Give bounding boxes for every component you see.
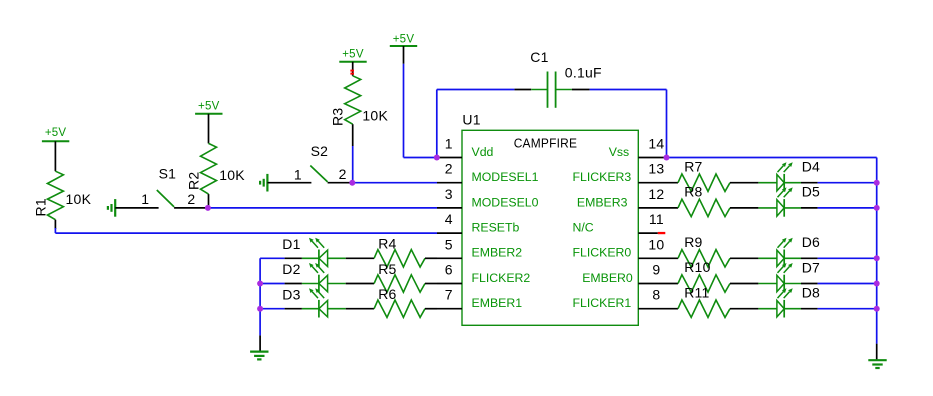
- svg-text:R5: R5: [378, 261, 396, 277]
- svg-text:13: 13: [648, 161, 664, 177]
- svg-text:+5V: +5V: [393, 33, 415, 45]
- wire R3 bottom to node: [352, 146, 354, 183]
- resistor R1 10K: [33, 171, 92, 229]
- svg-text:EMBER1: EMBER1: [472, 296, 523, 310]
- junction left rail D3: [257, 306, 263, 312]
- wire R1 to RESETb: [55, 232, 437, 234]
- svg-text:MODESEL1: MODESEL1: [472, 170, 539, 184]
- svg-text:S1: S1: [159, 165, 177, 181]
- svg-text:R1: R1: [33, 198, 49, 216]
- svg-text:2: 2: [339, 166, 347, 182]
- svg-text:EMBER2: EMBER2: [472, 246, 523, 260]
- +5V supply above R3: [339, 49, 366, 76]
- svg-text:+5V: +5V: [342, 49, 364, 61]
- svg-text:FLICKER2: FLICKER2: [472, 271, 531, 285]
- svg-text:2: 2: [187, 191, 195, 207]
- svg-text:10K: 10K: [66, 191, 92, 207]
- junction node R2/S1: [205, 205, 211, 211]
- svg-text:0.1uF: 0.1uF: [565, 65, 602, 81]
- switch S2: [260, 143, 352, 192]
- U1 pin 10 (FLICKER0): [573, 236, 679, 259]
- U1 pin 3 (MODESEL0): [437, 186, 539, 209]
- wire C1 down to Vss node: [666, 90, 668, 158]
- wire R1 bottom corner: [54, 228, 56, 233]
- resistor R7: [678, 158, 758, 191]
- svg-text:D3: D3: [282, 286, 300, 302]
- junction right rail D5: [874, 205, 880, 211]
- svg-text:R3: R3: [330, 108, 346, 126]
- svg-text:R9: R9: [684, 234, 702, 250]
- svg-text:D5: D5: [802, 184, 820, 200]
- U1 pin 2 (MODESEL1): [437, 161, 539, 184]
- U1 pin 9 (EMBER0): [582, 262, 678, 285]
- resistor R10: [678, 259, 758, 292]
- wire R2/S1 node to MODESEL0: [208, 207, 437, 209]
- svg-text:R8: R8: [684, 184, 702, 200]
- svg-text:3: 3: [445, 186, 453, 202]
- ground (right rail): [868, 344, 886, 368]
- svg-text:10K: 10K: [362, 108, 388, 124]
- svg-text:FLICKER0: FLICKER0: [573, 246, 632, 260]
- U1 pin 8 (FLICKER1): [573, 287, 679, 310]
- wire C1 left: [437, 89, 515, 91]
- svg-text:D2: D2: [282, 261, 300, 277]
- wire left LED rail vertical: [259, 258, 261, 335]
- U1 pin 11 (N/C): [573, 211, 666, 234]
- wire +5V horizontal to Vdd node: [404, 157, 437, 159]
- LED D4: [758, 159, 876, 192]
- junction right rail D6: [874, 255, 880, 261]
- svg-text:R4: R4: [378, 236, 396, 252]
- svg-text:FLICKER3: FLICKER3: [573, 170, 632, 184]
- ground (left LED rail): [250, 335, 268, 359]
- ERC marker on R3 pin: [350, 70, 354, 72]
- svg-text:4: 4: [445, 211, 453, 227]
- svg-text:Vdd: Vdd: [472, 145, 494, 159]
- svg-text:Vss: Vss: [609, 145, 630, 159]
- +5V supply above R1: [42, 127, 69, 171]
- resistor R6: [346, 286, 437, 317]
- svg-text:2: 2: [445, 161, 453, 177]
- +5V supply above R2: [195, 100, 222, 143]
- junction Vdd node: [434, 155, 440, 161]
- U1 pin 12 (EMBER3): [577, 186, 678, 209]
- svg-text:1: 1: [141, 191, 149, 207]
- wire right rail vertical: [876, 158, 878, 344]
- resistor R3 10K: [330, 76, 389, 146]
- switch S1: [108, 165, 208, 216]
- svg-text:S2: S2: [311, 143, 329, 159]
- LED D7: [758, 259, 876, 292]
- LED D8: [758, 285, 876, 318]
- svg-text:MODESEL0: MODESEL0: [472, 195, 539, 209]
- IC U1 CAMPFIRE body: [462, 112, 638, 326]
- resistor R4: [346, 236, 437, 267]
- svg-text:1: 1: [294, 166, 302, 182]
- svg-text:R10: R10: [684, 259, 710, 275]
- svg-text:N/C: N/C: [573, 221, 594, 235]
- capacitor C1 0.1uF: [514, 49, 601, 108]
- junction Vss node: [664, 155, 670, 161]
- svg-text:D8: D8: [802, 285, 820, 301]
- wire C1 right: [590, 89, 667, 91]
- resistor R9: [678, 234, 758, 267]
- svg-text:R11: R11: [684, 284, 709, 300]
- svg-text:R2: R2: [186, 172, 202, 190]
- resistor R8: [678, 184, 758, 217]
- junction right rail D4: [874, 180, 880, 186]
- svg-text:RESETb: RESETb: [472, 221, 520, 235]
- U1 pin 13 (FLICKER3): [573, 161, 679, 184]
- svg-text:D1: D1: [282, 236, 300, 252]
- svg-text:U1: U1: [462, 112, 480, 128]
- U1 pin 7 (EMBER1): [437, 287, 522, 310]
- svg-text:7: 7: [445, 287, 453, 303]
- U1 pin 5 (EMBER2): [437, 236, 522, 259]
- U1 pin 1 (Vdd): [437, 136, 494, 159]
- svg-text:14: 14: [648, 136, 664, 152]
- LED D3: [260, 286, 346, 317]
- svg-text:CAMPFIRE: CAMPFIRE: [514, 135, 578, 150]
- LED D2: [260, 261, 346, 292]
- junction node R3/S2: [349, 180, 355, 186]
- svg-text:1: 1: [445, 136, 453, 152]
- svg-text:10K: 10K: [219, 167, 245, 183]
- +5V supply (Vdd net): [390, 33, 417, 64]
- svg-text:C1: C1: [530, 49, 548, 65]
- svg-text:R7: R7: [684, 158, 702, 174]
- svg-text:D4: D4: [802, 159, 820, 175]
- wire R3/S2 node to MODESEL1: [352, 182, 437, 184]
- svg-text:11: 11: [649, 211, 664, 227]
- svg-text:EMBER3: EMBER3: [577, 195, 628, 209]
- U1 pin 6 (FLICKER2): [437, 262, 530, 285]
- wire Vss node to right rail: [667, 157, 877, 159]
- svg-text:+5V: +5V: [198, 100, 220, 112]
- junction right rail D8: [874, 306, 880, 312]
- svg-text:5: 5: [445, 236, 453, 252]
- svg-text:+5V: +5V: [45, 127, 67, 139]
- resistor R2 10K: [186, 143, 246, 208]
- svg-text:FLICKER1: FLICKER1: [573, 296, 632, 310]
- svg-text:12: 12: [648, 186, 664, 202]
- U1 pin 14 (Vss): [609, 136, 667, 159]
- junction right rail D7: [874, 281, 880, 287]
- svg-text:9: 9: [652, 262, 660, 278]
- LED D5: [758, 184, 876, 217]
- wire +5V to pin1 vertical: [403, 64, 405, 158]
- wire Vdd node up to C1: [436, 90, 438, 158]
- svg-text:R6: R6: [378, 286, 396, 302]
- LED D6: [758, 234, 876, 267]
- svg-text:D7: D7: [802, 259, 820, 275]
- svg-text:D6: D6: [802, 234, 820, 250]
- junction left rail D2: [257, 281, 263, 287]
- svg-text:10: 10: [648, 236, 664, 252]
- resistor R5: [346, 261, 437, 292]
- svg-text:EMBER0: EMBER0: [582, 271, 633, 285]
- resistor R11: [678, 284, 758, 317]
- svg-text:8: 8: [652, 287, 660, 303]
- LED D1: [260, 236, 346, 267]
- U1 pin 4 (RESETb): [437, 211, 519, 234]
- svg-text:6: 6: [445, 262, 453, 278]
